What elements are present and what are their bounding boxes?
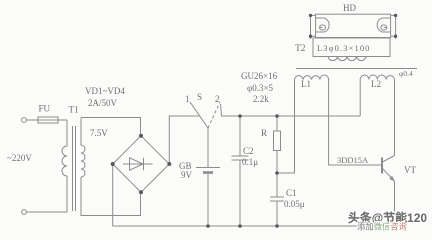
wire secondary top to bridge (81, 118, 141, 136)
transformer T2 winding L3 coil (328, 57, 366, 61)
wire switch common to battery (207, 128, 209, 168)
wire (27, 119, 39, 121)
svg-text:添加微信咨询: 添加微信咨询 (357, 222, 407, 232)
wire L1 right to transistor base (329, 80, 382, 166)
svg-text:1: 1 (185, 94, 190, 104)
lamp HD tube (316, 14, 391, 37)
svg-text:VD1~VD4: VD1~VD4 (85, 86, 125, 96)
switch S blade (190, 102, 208, 128)
bridge rectifier VD1-VD4 diamond (113, 136, 170, 193)
node battery ground (206, 224, 210, 228)
wire (58, 119, 67, 121)
svg-text:~220V: ~220V (7, 153, 32, 163)
svg-text:GU26×16: GU26×16 (241, 71, 278, 81)
svg-text:L3φ0.3×100: L3φ0.3×100 (317, 43, 371, 53)
wire bus up to L2 left (359, 80, 361, 117)
watermark (348, 211, 428, 232)
capacitor C1 (276, 173, 278, 197)
transformer T1 primary winding (62, 120, 67, 176)
transformer T2 winding L2 (360, 75, 394, 80)
svg-text:0.05μ: 0.05μ (284, 199, 305, 209)
wire R bottom to L1 left (277, 80, 295, 174)
capacitor C2 (239, 116, 241, 156)
node bridge right (167, 162, 171, 166)
wire secondary bottom to bridge (81, 177, 141, 216)
node R top (275, 114, 279, 118)
wire battery to ground (207, 174, 209, 226)
wire bridge plus to switch (169, 116, 199, 164)
svg-text:0.1μ: 0.1μ (242, 157, 258, 167)
node bridge top (139, 134, 143, 138)
node C2 top (238, 114, 242, 118)
svg-text:L1: L1 (301, 79, 311, 89)
transformer T2 winding L3 box (313, 38, 390, 57)
resistor R (276, 116, 278, 131)
node bridge left (111, 162, 115, 166)
lamp HD left pins (311, 14, 316, 16)
svg-text:φ0.4: φ0.4 (399, 69, 413, 78)
node C1 ground (275, 224, 279, 228)
node lamp pin top-right (394, 14, 397, 17)
svg-text:C1: C1 (286, 188, 297, 198)
node C2 ground (238, 224, 242, 228)
svg-text:9V: 9V (181, 170, 193, 180)
terminal input top (22, 118, 27, 123)
transformer T1 core (72, 126, 74, 211)
svg-text:L2: L2 (371, 79, 381, 89)
node lamp pin bottom-left (309, 35, 312, 38)
svg-text:3DD15A: 3DD15A (337, 155, 369, 165)
svg-text:S: S (197, 92, 202, 102)
node lamp pin top-left (309, 14, 312, 17)
bridge diode symbol (123, 163, 153, 165)
switch contact 2 stub (221, 104, 361, 116)
node lamp pin bottom-right (394, 35, 397, 38)
transformer T1 secondary winding (81, 118, 85, 178)
lamp HD left filament (316, 18, 330, 32)
svg-text:7.5V: 7.5V (90, 128, 108, 138)
svg-text:φ0.3×5: φ0.3×5 (247, 83, 274, 93)
svg-text:HD: HD (343, 3, 356, 13)
wire bridge minus to ground bus (113, 164, 395, 226)
lamp HD right filament (377, 18, 391, 32)
battery GB plates (196, 167, 220, 169)
svg-text:T1: T1 (69, 105, 79, 115)
fuse FU (38, 117, 58, 123)
wire (27, 176, 68, 212)
svg-text:VT: VT (404, 165, 416, 175)
svg-text:C2: C2 (243, 146, 254, 156)
lamp HD right pins (391, 14, 396, 16)
node bridge bottom (139, 190, 143, 194)
transformer T2 core (296, 68, 417, 70)
svg-text:T2: T2 (295, 44, 306, 54)
svg-text:R: R (261, 128, 267, 138)
switch S alternate position dashed (208, 102, 220, 128)
svg-text:FU: FU (39, 104, 51, 114)
node R bottom (275, 171, 279, 175)
svg-text:2.2k: 2.2k (253, 94, 269, 104)
svg-text:2A/50V: 2A/50V (88, 98, 118, 108)
transformer T2 winding L1 (295, 75, 329, 80)
terminal input bottom (22, 210, 27, 215)
svg-text:2: 2 (215, 94, 220, 104)
transistor VT (381, 158, 383, 174)
